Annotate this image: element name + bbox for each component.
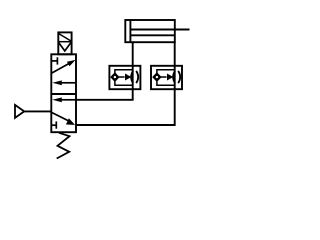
valve actuator V mark <box>59 43 71 51</box>
wire cylinder left port down through V1 <box>132 42 134 100</box>
wire valve port A to V1 <box>76 99 134 101</box>
valve position divider <box>51 93 76 95</box>
wire cylinder right port down through V2 <box>174 42 176 125</box>
flow control valve V1 arrow <box>119 76 125 78</box>
valve bottom box diagonal flow arrow <box>52 113 70 122</box>
wire valve port B to V2 <box>76 124 176 126</box>
valve actuator box <box>58 32 71 54</box>
compressed air source triangle <box>15 105 24 118</box>
valve top box diagonal flow arrow <box>51 63 69 73</box>
flow control valve V1 throttle arcs <box>131 71 138 83</box>
flow control valve V2 ball (white hole) <box>156 76 158 78</box>
flow control valve V2 box <box>151 66 182 89</box>
flow control valve V1 box <box>109 66 140 89</box>
valve bottom box horizontal flow arrow <box>60 99 76 101</box>
cylinder body <box>125 20 175 42</box>
flow control valve V2 arrow <box>161 76 167 78</box>
return spring <box>57 133 70 159</box>
cylinder piston rod <box>130 30 189 36</box>
wire source to valve <box>24 110 51 112</box>
valve bottom box blocked port T <box>51 121 56 128</box>
cylinder piston <box>129 20 131 42</box>
valve actuator diagonal <box>59 34 71 42</box>
flow control valve V1 check branch lines <box>115 70 133 86</box>
valve top box horizontal flow arrow <box>60 82 76 84</box>
valve body <box>51 54 76 132</box>
valve top box blocked port T <box>51 57 57 64</box>
valve actuator divider <box>58 41 71 43</box>
flow control valve V1 ball (white hole) <box>114 76 116 78</box>
flow control valve V2 check valve diamond <box>153 73 161 81</box>
flow control valve V2 check branch lines <box>157 70 175 86</box>
flow control valve V1 check valve diamond <box>111 73 119 81</box>
flow control valve V2 throttle arcs <box>173 71 180 83</box>
